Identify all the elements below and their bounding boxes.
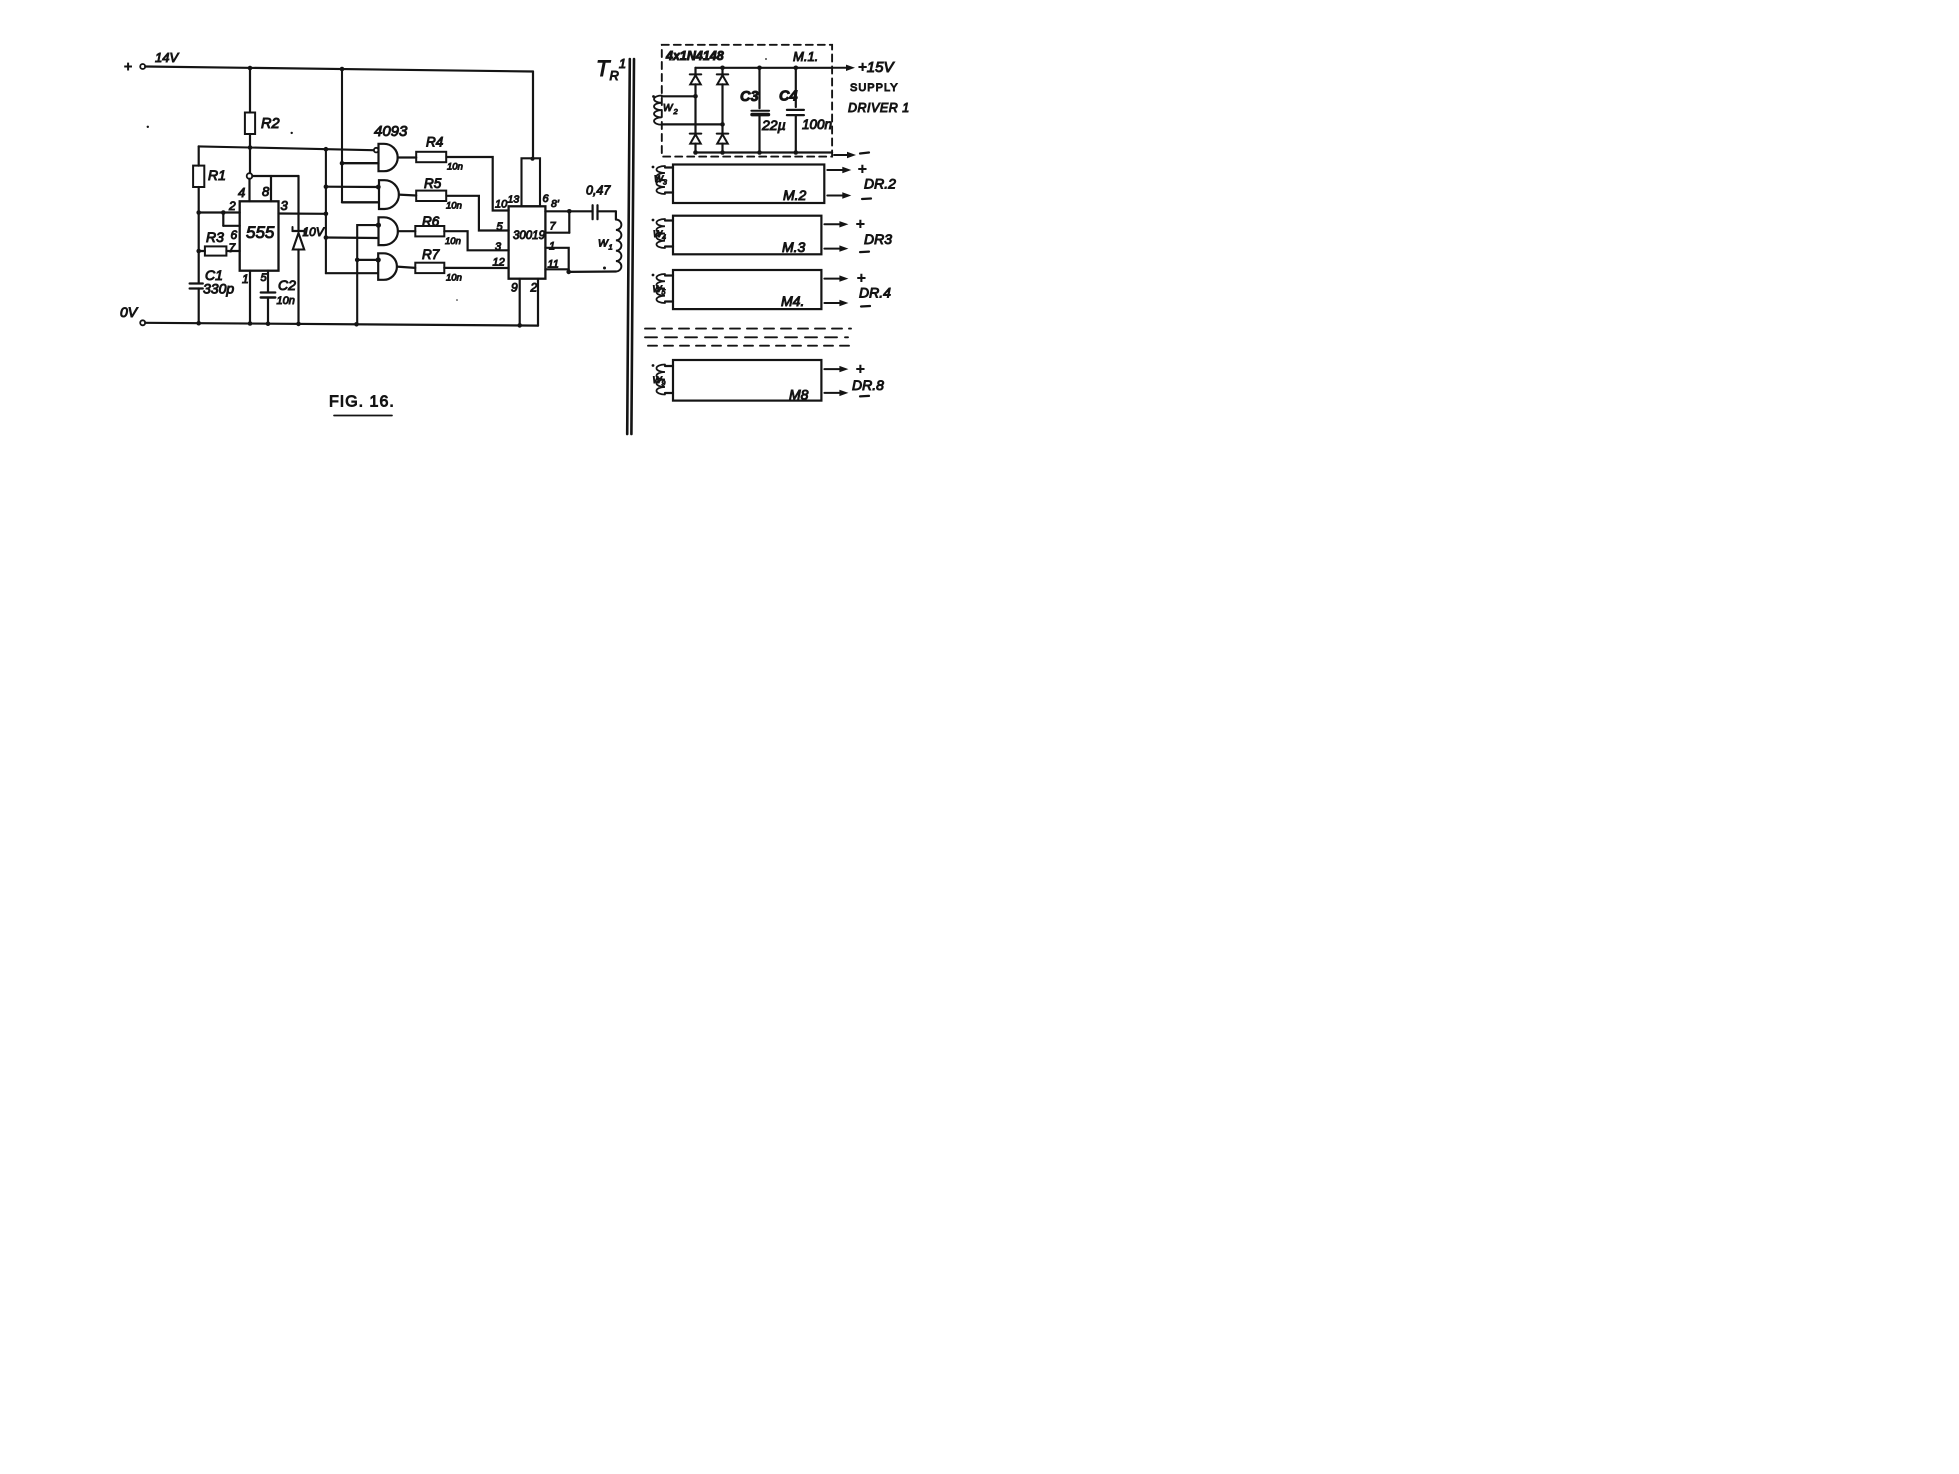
svg-text:R5: R5 <box>424 176 442 191</box>
svg-text:22µ: 22µ <box>761 117 786 133</box>
svg-text:5: 5 <box>261 272 268 284</box>
svg-text:DR.8: DR.8 <box>852 377 884 393</box>
svg-text:R4: R4 <box>426 135 443 150</box>
svg-text:14V: 14V <box>155 50 179 65</box>
svg-text:C3: C3 <box>740 89 759 105</box>
svg-text:DR3: DR3 <box>864 231 892 247</box>
svg-text:3: 3 <box>663 180 667 187</box>
svg-text:FIG. 16.: FIG. 16. <box>329 394 395 411</box>
svg-text:SUPPLY: SUPPLY <box>850 82 899 94</box>
svg-text:30019: 30019 <box>513 230 546 242</box>
svg-text:13: 13 <box>508 194 520 206</box>
svg-text:10n: 10n <box>446 273 462 284</box>
svg-text:5: 5 <box>662 290 666 297</box>
svg-text:330p: 330p <box>203 281 234 297</box>
svg-text:555: 555 <box>246 223 275 242</box>
svg-text:C2: C2 <box>278 277 296 293</box>
svg-text:DR.4: DR.4 <box>859 285 891 301</box>
svg-text:8': 8' <box>551 198 560 210</box>
svg-text:6: 6 <box>231 228 238 242</box>
svg-text:M.3: M.3 <box>782 239 806 255</box>
svg-text:5: 5 <box>497 221 504 233</box>
svg-text:+15V: +15V <box>858 59 895 76</box>
svg-text:R7: R7 <box>422 247 440 262</box>
svg-text:M8: M8 <box>789 387 809 403</box>
svg-text:10n: 10n <box>447 162 463 173</box>
svg-text:2: 2 <box>228 199 236 213</box>
svg-text:C4: C4 <box>779 89 798 105</box>
svg-text:1: 1 <box>242 272 249 286</box>
svg-text:1: 1 <box>549 241 555 253</box>
svg-text:7: 7 <box>550 221 557 233</box>
svg-text:3: 3 <box>495 241 502 253</box>
svg-text:10n: 10n <box>446 201 462 212</box>
svg-text:9: 9 <box>511 281 518 295</box>
svg-text:10: 10 <box>495 199 508 211</box>
svg-text:4093: 4093 <box>374 123 408 140</box>
svg-text:8: 8 <box>262 184 270 199</box>
svg-text:3: 3 <box>281 198 289 213</box>
svg-text:12: 12 <box>493 257 505 269</box>
svg-text:R6: R6 <box>422 214 440 229</box>
svg-text:4: 4 <box>662 235 666 242</box>
svg-text:100n: 100n <box>802 117 832 132</box>
svg-text:R2: R2 <box>261 116 280 132</box>
svg-text:DRIVER 1: DRIVER 1 <box>848 101 910 115</box>
svg-text:2: 2 <box>673 107 679 116</box>
svg-text:R3: R3 <box>206 229 224 245</box>
svg-text:4: 4 <box>238 185 245 200</box>
svg-text:DR.2: DR.2 <box>864 176 896 192</box>
svg-text:0V: 0V <box>120 304 139 320</box>
svg-text:M.2: M.2 <box>783 187 807 203</box>
svg-text:10n: 10n <box>445 236 461 247</box>
svg-text:M4.: M4. <box>781 293 804 309</box>
svg-text:9: 9 <box>662 381 666 388</box>
svg-text:0,47: 0,47 <box>586 184 611 198</box>
svg-text:10V: 10V <box>303 225 325 239</box>
svg-text:1: 1 <box>609 243 613 252</box>
svg-text:W: W <box>663 103 674 114</box>
svg-text:R1: R1 <box>208 167 226 183</box>
svg-text:+: + <box>124 58 132 74</box>
svg-text:W: W <box>598 238 609 250</box>
svg-text:10n: 10n <box>277 295 295 307</box>
svg-text:2: 2 <box>530 281 538 295</box>
svg-text:+: + <box>856 361 865 378</box>
svg-text:M.1.: M.1. <box>793 49 818 64</box>
svg-text:6: 6 <box>543 193 550 205</box>
svg-text:4x1N4148: 4x1N4148 <box>665 49 724 63</box>
